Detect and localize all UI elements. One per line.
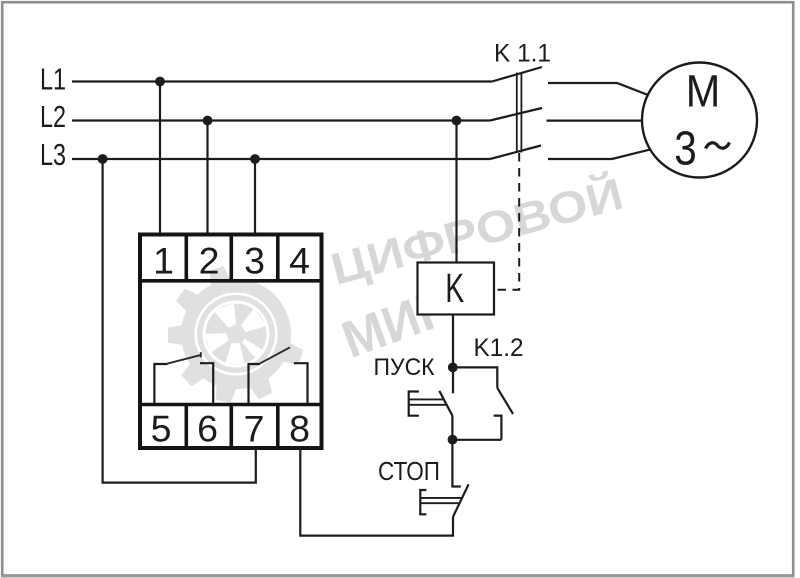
svg-text:K 1.1: K 1.1 bbox=[494, 40, 551, 68]
pushbutton STOP blade bbox=[453, 484, 469, 517]
wire L3 rail bbox=[72, 158, 490, 160]
motor M 3~ circle bbox=[642, 63, 757, 178]
contact K1.2 branch top wire bbox=[453, 367, 498, 388]
svg-text:3: 3 bbox=[244, 240, 265, 282]
junction dot L1/terminal1 bbox=[155, 77, 165, 87]
wire L2 to coil K bbox=[455, 121, 457, 263]
svg-text:L3: L3 bbox=[40, 137, 66, 172]
svg-text:4: 4 bbox=[289, 240, 310, 282]
dashed link K1.1 to coil K bbox=[495, 153, 519, 290]
contact K1.2 branch bottom wire bbox=[453, 439, 502, 441]
pushbutton PUSK actuator bracket bbox=[409, 392, 419, 416]
wire motor lead 1 bbox=[548, 83, 648, 95]
device outer box bbox=[140, 235, 322, 449]
wire L1 to terminal 1 bbox=[159, 82, 161, 237]
svg-text:K: K bbox=[445, 265, 464, 311]
contact K1.2 fixed seat bbox=[494, 416, 502, 440]
device top terminal dividers bbox=[186, 235, 277, 281]
wire L2 rail bbox=[72, 119, 490, 121]
wire L3 to terminal 3 bbox=[254, 159, 256, 236]
svg-text:8: 8 bbox=[289, 407, 310, 449]
pushbutton STOP shaft bbox=[420, 498, 462, 503]
svg-text:M: M bbox=[686, 66, 721, 117]
device bottom terminal dividers bbox=[186, 405, 277, 448]
coil K box bbox=[418, 263, 495, 315]
junction dot node A (top of buttons) bbox=[448, 363, 458, 373]
relay contact 7-8 bbox=[249, 347, 308, 404]
contact K1.1 linkage double bar bbox=[517, 73, 522, 153]
device top terminal row separator bbox=[140, 279, 322, 283]
junction dot node B (bottom of buttons) bbox=[448, 435, 458, 445]
svg-text:L1: L1 bbox=[40, 62, 66, 97]
junction dot L3/left branch bbox=[98, 154, 108, 164]
svg-text:6: 6 bbox=[197, 407, 218, 449]
wire motor lead 2 bbox=[547, 119, 643, 121]
pushbutton STOP actuator bracket bbox=[420, 490, 426, 514]
wire STOP to terminal 8 bbox=[300, 447, 453, 536]
wire motor lead 3 bbox=[548, 149, 651, 159]
pushbutton PUSK blade bbox=[439, 391, 452, 415]
wire L3 branch to terminal 7 bbox=[103, 159, 256, 483]
pushbutton PUSK shaft bbox=[409, 399, 447, 404]
contact K1.2 blade bbox=[497, 388, 513, 414]
junction dot L2/terminal2 bbox=[203, 116, 213, 126]
svg-text:2: 2 bbox=[199, 240, 220, 282]
svg-text:1: 1 bbox=[153, 240, 174, 282]
junction dot L3/terminal3 bbox=[250, 154, 260, 164]
svg-text:3: 3 bbox=[674, 122, 697, 175]
svg-text:7: 7 bbox=[244, 407, 265, 449]
contact K1.1 pole 2 blade bbox=[490, 108, 542, 121]
relay contact 5-6 bbox=[154, 352, 213, 404]
watermark gear logo bbox=[168, 266, 304, 402]
device bottom terminal row separator bbox=[140, 403, 322, 407]
wire L1 rail bbox=[72, 80, 492, 82]
svg-text:5: 5 bbox=[151, 407, 172, 449]
motor label ~ bbox=[706, 143, 730, 149]
wire L2 to terminal 2 bbox=[206, 121, 208, 237]
wire PUSK bottom bbox=[451, 415, 453, 440]
contact K1.1 pole 1 blade bbox=[492, 67, 542, 82]
wire node B to STOP bbox=[452, 440, 460, 487]
wire coil K to PUSK node bbox=[452, 315, 454, 394]
contact K1.1 pole 3 blade bbox=[490, 146, 541, 160]
junction dot L2/coil branch bbox=[452, 116, 462, 126]
svg-text:СТОП: СТОП bbox=[378, 456, 440, 486]
svg-text:L2: L2 bbox=[40, 99, 66, 134]
svg-text:K1.2: K1.2 bbox=[474, 334, 524, 362]
svg-text:ПУСК: ПУСК bbox=[374, 354, 436, 381]
